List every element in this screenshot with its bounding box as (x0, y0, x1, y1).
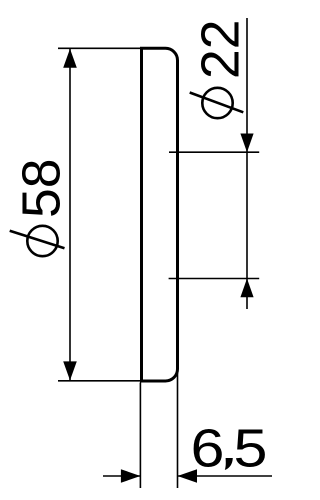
svg-text:22: 22 (192, 19, 251, 79)
dim 6,5: left dimension line tail (103, 475, 140, 477)
dim Ø22: bottom extension line (169, 278, 260, 280)
svg-text:6: 6 (191, 420, 225, 479)
dim Ø58: bottom arrow (down) (63, 361, 77, 380)
dim 6,5: left arrow (points right) (121, 469, 140, 483)
dim Ø22: diameter symbol slash (190, 93, 244, 113)
dim Ø58: top extension line (58, 47, 142, 49)
dim Ø58: dimension line (69, 49, 71, 381)
dim 6,5: decimal comma (225, 458, 233, 470)
dim 6,5: right extension line (177, 370, 179, 488)
dim 6,5: right arrow (points left) (178, 469, 198, 483)
dim Ø58: bottom extension line (58, 380, 142, 382)
dim Ø22: lower arrow (up, tip on bottom ext line) (240, 279, 253, 298)
dim 6,5: left extension line (139, 383, 141, 489)
svg-text:5: 5 (234, 420, 268, 479)
dim Ø58: diameter symbol circle (27, 226, 57, 256)
part outline: side profile of disc, rounded right corners (142, 48, 178, 381)
dim 6,5: right dimension line tail (178, 475, 273, 477)
dim Ø22: diameter symbol circle (202, 88, 232, 118)
dim Ø58: diameter symbol slash (10, 231, 65, 249)
svg-text:58: 58 (13, 158, 72, 218)
dim Ø22: upper arrow (down, tip on top ext line) (240, 134, 253, 153)
dim Ø22: dimension line (246, 18, 248, 309)
dim Ø22: top extension line (169, 151, 259, 153)
dim Ø58: top arrow (up) (63, 49, 77, 68)
